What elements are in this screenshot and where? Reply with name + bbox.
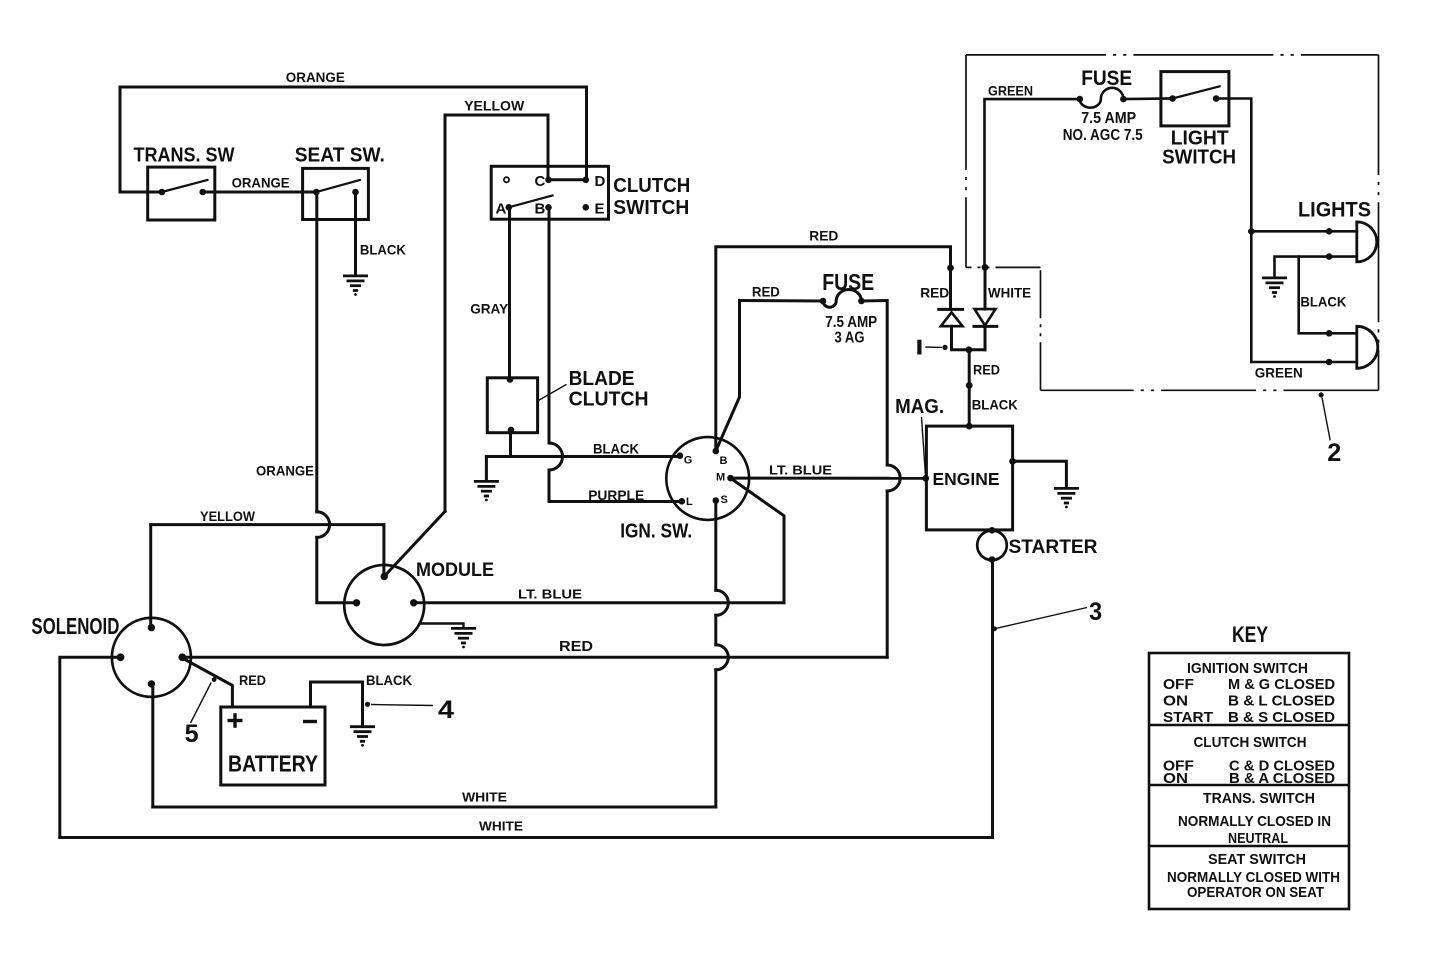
svg-text:M: M [716,471,725,483]
svg-text:3: 3 [1089,598,1102,626]
svg-text:RED: RED [973,362,1000,378]
wire fuse right to solenoid red riser (hop over lt.blue) [861,301,887,466]
ground battery [350,727,375,747]
svg-text:FUSE: FUSE [1081,67,1132,90]
terminal dot M [727,475,734,482]
svg-text:LT. BLUE: LT. BLUE [518,587,582,602]
wire C to D closed contact [549,178,586,181]
pointer line to BLADE CLUTCH label [538,384,566,400]
wire RED solenoid to riser [182,656,887,659]
wire junction down to engine [968,350,971,426]
seat switch box SEAT SW. [303,168,369,219]
svg-text:NORMALLY CLOSED IN: NORMALLY CLOSED IN [1178,813,1331,830]
svg-text:IGN. SW.: IGN. SW. [620,521,692,543]
terminal dot solenoid top [148,624,155,631]
svg-text:CLUTCH SWITCH: CLUTCH SWITCH [1194,734,1307,751]
wire YELLOW horizontal to module riser [151,525,384,577]
svg-text:MODULE: MODULE [416,560,494,581]
terminal dot lower lamp top [1326,330,1333,337]
svg-text:SWITCH: SWITCH [613,197,689,219]
pointer dot 2 [1319,392,1324,397]
terminal dot engine top [966,423,973,430]
wire WHITE bottom run to starter [60,560,993,838]
trans switch box TRANS. SW [148,167,215,220]
module ground stub [420,624,464,628]
pointer line 3 [997,608,1088,629]
wire YELLOW solenoid top riser [149,525,152,628]
terminal dot D [583,177,590,184]
svg-text:START: START [1163,709,1213,726]
svg-text:CLUTCH: CLUTCH [569,389,649,411]
wire PURPLE to L [549,500,682,503]
wire BLACK battery negative to ground [311,682,363,725]
wire BLACK between lamps [1299,257,1357,334]
ground blade clutch circuit [474,481,499,501]
svg-text:RED: RED [752,283,780,299]
svg-text:ORANGE: ORANGE [256,463,314,479]
svg-text:3 AG: 3 AG [835,330,865,347]
fuse dot green right [1120,96,1127,103]
clutch switch blade A-B [509,196,553,208]
terminal dot engine left [922,475,929,482]
svg-text:MAG.: MAG. [895,396,944,418]
pointer dot 5 [212,677,217,682]
junction dot lamp feed [1248,228,1255,235]
svg-text:D: D [595,173,606,190]
svg-text:4: 4 [438,696,454,724]
battery box [221,707,325,785]
key table divider 1 [1149,724,1349,727]
terminal dot lower lamp bottom [1326,359,1333,366]
battery minus symbol [303,720,317,723]
svg-text:RED: RED [239,672,266,688]
terminal dot trans right [199,189,206,196]
engine box [926,426,1012,530]
terminal dot E [583,204,590,211]
terminal dot module right [410,599,417,606]
ground engine [1054,488,1079,508]
wire fuse to light switch [1123,97,1172,100]
wire ORANGE top run [120,87,587,192]
wire BLACK seat switch to ground [354,192,357,275]
terminal open circle clutch [504,177,509,182]
wire blade clutch to black junction [509,430,512,457]
svg-text:B: B [535,201,546,218]
fuse 7.5 AMP NO. AGC squiggle [1080,88,1124,108]
svg-text:RED: RED [809,228,838,244]
ignition switch circle IGN. SW. [666,437,749,520]
junction dot diode output [966,346,973,353]
fuse dot green left [1077,96,1084,103]
harness dashed border box 2 [966,55,1379,390]
svg-text:NEUTRAL: NEUTRAL [1228,830,1288,847]
starter circle [977,531,1007,561]
fuse dot ign left [820,298,827,305]
solenoid circle [112,618,191,697]
wire RED battery diagonal [184,659,232,707]
svg-text:BLACK: BLACK [972,397,1018,413]
svg-text:GREEN: GREEN [1255,365,1303,381]
svg-text:SOLENOID: SOLENOID [31,613,119,639]
svg-text:BLACK: BLACK [1300,294,1346,310]
svg-text:B: B [720,455,728,467]
svg-text:ON: ON [1163,693,1188,710]
svg-text:ENGINE: ENGINE [933,469,1000,489]
svg-text:RED: RED [559,639,593,655]
terminal dot module top [381,573,388,580]
svg-text:NO. AGC 7.5: NO. AGC 7.5 [1063,127,1143,144]
terminal dot module left [353,599,360,606]
svg-text:WHITE: WHITE [988,284,1031,300]
wire solenoid bottom to white upper [151,684,154,807]
terminal dot starter bottom [989,556,996,563]
wire solenoid left to lower white [60,657,121,837]
terminal dot solenoid left [117,653,125,661]
terminal dot seat left [313,189,320,196]
terminal dot engine right [1009,458,1016,465]
svg-text:PURPLE: PURPLE [588,487,644,503]
svg-text:YELLOW: YELLOW [200,508,256,524]
svg-text:OPERATOR ON SEAT: OPERATOR ON SEAT [1187,884,1324,901]
svg-text:CLUTCH: CLUTCH [613,175,690,197]
junction dot harness red [966,382,973,389]
svg-text:WHITE: WHITE [462,790,507,805]
seat switch blade [316,180,360,192]
svg-text:BLACK: BLACK [360,241,406,257]
junction dot red riser [947,265,954,272]
pointer line 2 [1322,398,1330,441]
pointer line 5 [191,683,212,724]
fuse dot ign right [858,298,865,305]
svg-text:LT. BLUE: LT. BLUE [769,463,832,478]
terminal dot upper lamp bottom [1326,253,1333,260]
terminal dot starter top [989,527,996,534]
terminal dot solenoid right [178,653,186,661]
terminal dot A [506,204,513,211]
terminal dot seat right [352,189,359,196]
svg-text:C: C [535,173,546,190]
wire GREEN down to white diode [985,99,1080,267]
wire trans switch feed [120,191,162,194]
key table box [1149,653,1349,909]
wire LT. BLUE M to engine [731,477,926,480]
terminal dot trans left [159,189,166,196]
lamp upper [1357,222,1377,262]
diode WHITE triangle [975,309,996,325]
junction dot white wire [982,264,989,271]
svg-text:OFF: OFF [1163,676,1194,693]
clutch switch box [491,166,608,219]
diode WHITE wire top [984,267,987,309]
wire upper lamp return and ground [1275,257,1357,277]
terminal dot light switch left [1169,95,1176,102]
ground lamps [1262,278,1287,298]
svg-text:IGNITION SWITCH: IGNITION SWITCH [1187,660,1308,677]
wire GREEN lower lamp return [1251,361,1357,364]
wire RED top B to diode branch [716,247,951,451]
terminal dot B [545,204,552,211]
wire LT. BLUE module to M riser [731,478,785,603]
svg-text:BLADE: BLADE [569,368,635,390]
terminal dot C [545,177,552,184]
terminal dot S [713,497,720,504]
svg-text:A: A [496,201,507,218]
wire BLACK to ign G [486,455,679,458]
svg-text:LIGHTS: LIGHTS [1298,199,1371,222]
svg-text:BLACK: BLACK [593,440,639,456]
svg-text:RED: RED [920,284,949,300]
wire GRAY A to blade clutch [508,207,511,379]
terminal dot light switch right [1213,95,1220,102]
svg-text:SEAT SW.: SEAT SW. [295,145,385,167]
svg-text:KEY: KEY [1232,622,1268,647]
svg-text:G: G [684,454,693,466]
terminal dot L [679,498,686,505]
pointer line MAG [922,417,926,476]
terminal dot blade clutch bottom [508,427,515,434]
terminal dot solenoid bottom [148,680,155,687]
wire B diagonal to fuse branch [716,301,740,452]
svg-text:STARTER: STARTER [1009,537,1098,558]
wire black ground drop [485,457,488,481]
svg-text:M & G CLOSED: M & G CLOSED [1228,676,1335,693]
trans switch blade [162,180,208,192]
wire RED into fuse left [740,299,824,303]
terminal dot upper lamp top [1326,228,1333,235]
diode RED triangle [941,312,963,326]
svg-text:2: 2 [1327,439,1341,467]
svg-text:ON: ON [1163,770,1188,787]
svg-text:FUSE: FUSE [822,269,874,295]
wire white diode to junction [984,326,987,349]
svg-text:ORANGE: ORANGE [286,69,345,85]
light switch blade [1173,86,1220,98]
wire YELLOW top run [445,115,548,511]
svg-text:TRANS. SW: TRANS. SW [134,145,235,167]
wire WHITE solenoid bottom to S riser [153,806,716,809]
pointer line 1 [925,346,942,348]
lamp lower [1357,326,1378,368]
ground seat switch [343,276,368,296]
svg-text:ORANGE: ORANGE [232,175,290,191]
pointer dot 4 [365,702,370,707]
battery plus symbol [228,713,243,728]
wire S down to white (hops over lt.blue and red) [714,501,717,591]
svg-text:E: E [595,201,605,218]
diode WHITE bar [974,325,997,328]
fuse 7.5 AMP 3 AG squiggle [823,290,861,308]
svg-text:SEAT SWITCH: SEAT SWITCH [1208,851,1306,868]
key table divider 2 [1149,784,1349,787]
light switch box [1161,72,1229,126]
ground module [451,628,476,648]
wire clutch B down (with hop over black) [548,207,551,443]
pointer dot 3 [992,626,997,631]
diode RED bar [939,308,963,311]
svg-text:SWITCH: SWITCH [1162,146,1236,168]
key table divider 3 [1149,845,1349,848]
svg-text:GREEN: GREEN [988,83,1033,99]
svg-text:YELLOW: YELLOW [464,98,525,114]
svg-text:B & L CLOSED: B & L CLOSED [1228,693,1335,710]
svg-text:5: 5 [185,720,199,748]
svg-text:B & S CLOSED: B & S CLOSED [1228,709,1335,726]
wire engine right to ground [1013,461,1067,487]
svg-text:GRAY: GRAY [470,301,509,317]
wire light switch to lamps feed [1216,99,1251,363]
wire ORANGE seat switch down to module (with hop over yellow) [315,192,318,512]
svg-text:WHITE: WHITE [479,819,523,834]
blade clutch box [487,378,537,433]
terminal dot G [677,452,684,459]
svg-text:7.5 AMP: 7.5 AMP [825,314,877,331]
numeral 1 [917,340,921,355]
svg-text:L: L [686,496,693,508]
wire ORANGE between TRANS.SW and SEAT SW. [203,191,317,194]
svg-text:BLACK: BLACK [366,672,412,688]
svg-text:TRANS. SWITCH: TRANS. SWITCH [1203,790,1315,807]
wire to upper lamp [1251,230,1357,233]
terminal dot blade clutch top [507,376,514,383]
svg-text:BATTERY: BATTERY [228,751,318,777]
svg-text:B & A CLOSED: B & A CLOSED [1229,770,1335,787]
terminal dot B [713,448,720,455]
svg-text:S: S [721,494,728,506]
svg-text:7.5 AMP: 7.5 AMP [1081,110,1136,127]
wire YELLOW diagonal into module [385,511,446,576]
module circle [344,565,424,645]
wire red diode to junction [952,326,986,350]
pointer line 4 [371,705,433,706]
pointer dot 1 [942,345,947,350]
